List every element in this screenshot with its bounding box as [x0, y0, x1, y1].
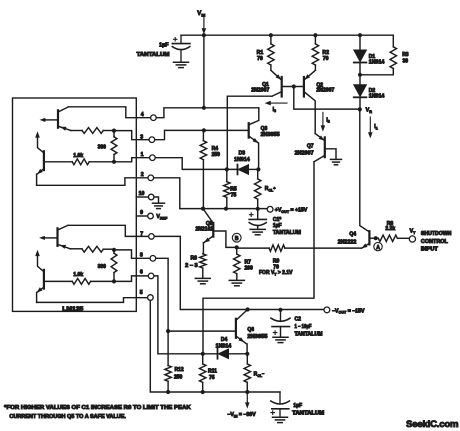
wire Q2 collector to Q7 emitter [315, 134, 324, 141]
svg-text:7: 7 [140, 231, 143, 237]
wire Q6 base [168, 330, 236, 332]
svg-text:−VOUT = −15V: −VOUT = −15V [332, 308, 365, 314]
ground input capacitor [174, 62, 189, 67]
svg-text:8: 8 [140, 252, 143, 258]
ground pin 10 [153, 203, 165, 208]
capacitor C2 plus sign [273, 331, 277, 335]
resistor R3 [360, 35, 397, 75]
label 300 upper [98, 144, 107, 150]
label Q6 [247, 327, 267, 340]
label I2 [326, 117, 329, 123]
wire VR to Q4 collector [360, 109, 370, 231]
node V_IN lower junction [202, 106, 206, 110]
svg-text:C1*: C1* [273, 217, 281, 223]
node D1 top [358, 33, 362, 37]
svg-text:250: 250 [212, 152, 221, 158]
internal transistor T4 [35, 250, 44, 303]
svg-text:R3: R3 [402, 52, 409, 58]
wire pin 10 to ground [154, 197, 159, 203]
wire Q1-Q2 base link [282, 86, 304, 88]
svg-text:9: 9 [140, 210, 143, 216]
transistor Q5 2N2102 [203, 209, 237, 254]
svg-text:1.0k: 1.0k [73, 153, 83, 159]
svg-text:2N2907: 2N2907 [295, 151, 314, 157]
label C2 [295, 317, 323, 338]
resistor R2 [312, 35, 318, 70]
transistor Q6 2N3055 [236, 310, 248, 354]
svg-text:75: 75 [231, 192, 237, 198]
wire pin 8 down [156, 258, 168, 365]
svg-text:VIN: VIN [197, 11, 205, 17]
internal transistor T1 [40, 107, 71, 131]
svg-text:2: 2 [141, 172, 144, 178]
wire Q1 collector to left node [227, 96, 272, 169]
wire pin 6 to D4 node [154, 276, 218, 354]
pin 4 terminal [141, 112, 156, 120]
svg-text:5: 5 [140, 290, 143, 296]
svg-text:1N914: 1N914 [234, 157, 250, 163]
label -VIN [227, 412, 256, 418]
internal resistor 1.0k upper [44, 159, 114, 165]
resistor R12 [165, 366, 171, 393]
wire pin 1 staircase [155, 158, 237, 170]
pin 3 terminal [140, 135, 155, 143]
node VR [358, 107, 362, 111]
wire pin 2 to +VOUT rail [154, 178, 268, 209]
svg-text:R7: R7 [245, 259, 252, 265]
svg-text:CURRENT THROUGH Q5 TO A SAFE V: CURRENT THROUGH Q5 TO A SAFE VALUE. [9, 414, 126, 420]
svg-text:300: 300 [98, 264, 107, 270]
svg-text:6: 6 [140, 270, 143, 276]
svg-text:1 – 10µF: 1 – 10µF [295, 324, 312, 330]
wire 300 bottom to pin 1 [114, 158, 150, 162]
internal resistor upper horizontal [71, 128, 114, 134]
svg-text:1µF: 1µF [159, 42, 169, 48]
svg-text:3: 3 [140, 135, 143, 141]
label R2 [322, 50, 329, 62]
node D3 right junction [256, 167, 260, 171]
terminal +VOUT [267, 206, 273, 212]
wire 300 top to pin 3 [114, 131, 149, 140]
svg-text:Q4: Q4 [349, 231, 356, 237]
node base link junction [292, 84, 296, 88]
label D2 [369, 88, 385, 100]
pin 1 terminal [141, 152, 156, 160]
resistor RCL- [244, 354, 250, 392]
svg-text:200: 200 [245, 266, 254, 272]
svg-text:TANTALUM: TANTALUM [295, 331, 323, 337]
label RCL- [254, 371, 265, 378]
svg-text:RCL+: RCL+ [265, 186, 276, 193]
label I1 [374, 124, 377, 130]
label Q7 [295, 143, 314, 156]
ground Q7 base [331, 159, 342, 164]
internal resistor lower horizontal [70, 246, 114, 252]
internal transistor T2 [35, 131, 44, 185]
node R12 bottom [166, 390, 170, 394]
label R11 [208, 368, 217, 381]
node D1-D2 junction [358, 73, 362, 77]
label V_IN [197, 11, 205, 17]
svg-text:INPUT: INPUT [421, 246, 438, 252]
svg-text:VR: VR [366, 108, 373, 114]
node R5 bottom [224, 207, 228, 211]
node 300 bottom upper [112, 160, 116, 164]
node RCL- bottom [245, 390, 249, 394]
node D4 left junction [201, 352, 205, 356]
wire pin 10 stub [136, 196, 148, 198]
resistor R1 [268, 35, 274, 70]
-VIN arrow [245, 392, 250, 409]
svg-text:CONTROL: CONTROL [421, 239, 448, 245]
current arrow I2 [321, 112, 326, 131]
footnote line 1 [4, 405, 191, 411]
label R6 [185, 255, 198, 269]
label Q1 [251, 82, 269, 94]
node R11 bottom [201, 390, 205, 394]
capacitor C1 [249, 209, 266, 230]
node D3 left junction [225, 167, 229, 171]
label R9 [259, 258, 293, 276]
svg-text:VT: VT [410, 229, 416, 235]
label VR [366, 108, 373, 114]
svg-text:SeekIC.com: SeekIC.com [406, 419, 458, 430]
label Q2 [316, 82, 334, 93]
transistor Q1 2N2907 [271, 70, 282, 96]
wire V_IN vertical to lower rail [203, 35, 205, 108]
svg-text:I1: I1 [374, 124, 377, 130]
svg-text:LM125: LM125 [62, 306, 83, 312]
svg-text:B: B [235, 236, 239, 242]
node V_IN junction [202, 33, 206, 37]
resistor R4 [200, 130, 206, 208]
label I3 [273, 107, 276, 113]
label RCL+ [265, 186, 276, 193]
svg-text:SHUTDOWN: SHUTDOWN [421, 231, 452, 237]
svg-text:2N2907: 2N2907 [251, 88, 269, 94]
svg-text:R5: R5 [230, 186, 237, 192]
node 300 bottom lower [112, 279, 116, 283]
wire pin 7 to -VOUT rail [154, 236, 324, 309]
svg-text:70: 70 [323, 56, 329, 62]
svg-text:FOR VT > 2.1V: FOR VT > 2.1V [259, 270, 293, 276]
transistor Q4 2N2222 [362, 231, 379, 248]
wire T2 emitter to pin 2 [37, 178, 148, 186]
svg-text:250: 250 [174, 375, 183, 381]
wire pin 4 to VIN rail and Q3 collector [151, 108, 259, 118]
wire V_IN top rail [181, 34, 393, 36]
node 300 top lower [112, 248, 116, 252]
wire base junction to VR line [294, 87, 360, 110]
resistor RCL+ [255, 169, 261, 208]
svg-text:D3: D3 [239, 150, 246, 156]
label D3 [234, 150, 250, 163]
node pin8 Q6 base junction [166, 329, 170, 333]
label C1 [273, 217, 301, 236]
label R12 [174, 367, 184, 381]
capacitor 1uF tantalum bottom [271, 392, 290, 417]
svg-text:VREF: VREF [156, 214, 168, 220]
label LM125 [62, 306, 83, 312]
svg-text:I2: I2 [326, 117, 329, 123]
internal resistor 300 lower [111, 250, 117, 282]
svg-text:75: 75 [209, 375, 215, 381]
label TANTALUM input cap [137, 52, 171, 58]
label D1 [369, 54, 385, 66]
node R4 top [202, 128, 206, 132]
capacitor bottom plus sign [271, 411, 275, 415]
resistor R5 [224, 169, 230, 208]
svg-text:TANTALUM: TANTALUM [273, 230, 301, 236]
svg-text:2N3055: 2N3055 [247, 334, 267, 340]
label Q3 [261, 126, 280, 138]
pin 10 terminal [139, 191, 154, 200]
node A junction [374, 236, 378, 240]
pin 2 terminal [141, 172, 154, 181]
wire pin 5 to bottom rail [150, 300, 280, 392]
svg-text:1N914: 1N914 [216, 343, 232, 349]
svg-text:R6: R6 [191, 255, 198, 261]
svg-text:D4: D4 [221, 337, 228, 343]
current arrow I3 [265, 101, 287, 106]
pin 6 terminal [140, 270, 154, 279]
label D4 [216, 337, 232, 350]
svg-text:2N2222: 2N2222 [338, 239, 357, 245]
svg-text:A: A [376, 245, 380, 251]
label 1uF input cap [159, 42, 169, 48]
label 1.0k upper [73, 153, 83, 159]
label 1.0k lower [73, 272, 83, 278]
svg-text:RCL−: RCL− [254, 371, 265, 378]
transistor Q2 2N2907 [304, 70, 316, 133]
svg-text:1: 1 [141, 152, 144, 158]
terminal -VOUT [324, 307, 330, 313]
label +VOUT [275, 208, 308, 214]
svg-text:1.0k: 1.0k [73, 272, 83, 278]
label 300 lower [98, 264, 107, 270]
wire T4 emitter to pin 5 [37, 298, 148, 303]
svg-text:−VIN = −30V: −VIN = −30V [227, 412, 256, 418]
label R7 [245, 259, 254, 271]
capacitor C2 [271, 310, 290, 337]
node C2 top [278, 308, 282, 312]
capacitor C1 plus sign [249, 213, 253, 217]
wire pin 9 stub [136, 215, 147, 217]
node 300 top upper [112, 129, 116, 133]
pin 7 terminal [140, 231, 154, 239]
svg-text:R12: R12 [175, 367, 184, 373]
svg-text:Q6: Q6 [247, 327, 254, 333]
svg-text:1N914: 1N914 [369, 94, 385, 100]
diode D1 1N914 [354, 35, 367, 75]
node R4 bottom [201, 207, 205, 211]
node D4 right junction [245, 352, 249, 356]
label R8 [385, 221, 395, 232]
svg-text:I3: I3 [273, 107, 276, 113]
diode D3 1N914 [238, 165, 259, 175]
resistor R7 [234, 247, 240, 280]
wire T3 collector to pin 7 [68, 225, 149, 236]
wire pin 3 to Q3 base [149, 130, 249, 139]
svg-text:Q7: Q7 [307, 143, 314, 149]
wire Q7 collector long run [203, 162, 314, 354]
label VT [410, 229, 416, 235]
label R5 [230, 186, 237, 198]
resistor R9 [237, 245, 362, 251]
internal resistor 1.0k lower [44, 279, 114, 285]
node B junction [235, 245, 239, 249]
ground R6 [195, 278, 210, 283]
svg-text:*FOR HIGHER VALUES OF C1 INCRE: *FOR HIGHER VALUES OF C1 INCREASE R6 TO … [4, 405, 191, 411]
internal transistor T3 [39, 225, 70, 249]
label Q5 [196, 221, 214, 233]
node A circle label [374, 242, 382, 250]
svg-text:2N3055: 2N3055 [261, 132, 280, 138]
label -VOUT [332, 308, 365, 314]
svg-text:1µF: 1µF [293, 403, 302, 409]
node R1 top [269, 33, 273, 37]
svg-text:1N914: 1N914 [369, 60, 385, 66]
terminal VT shutdown [409, 236, 415, 242]
ground R7 [229, 280, 244, 285]
svg-text:R11: R11 [208, 368, 217, 374]
transistor Q3 2N3055 [249, 108, 259, 170]
svg-text:2N2907: 2N2907 [316, 88, 334, 94]
pin 9 terminal [140, 210, 153, 219]
diode D2 1N914 [354, 75, 367, 110]
svg-text:2.2k: 2.2k [385, 226, 395, 232]
V_IN input arrow [202, 17, 207, 35]
ground C2 [273, 337, 288, 342]
wire 300 bottom to pin 6 [114, 276, 148, 282]
transistor Q7 2N2907 [314, 136, 336, 162]
capacitor 1uF tantalum input, plus sign [174, 38, 178, 42]
ground C1 [250, 229, 265, 234]
node R2 top [313, 33, 317, 37]
resistor R11 [200, 354, 206, 392]
node Q6 collector on rail [246, 307, 250, 311]
wire 300 top to pin 8 [114, 250, 150, 258]
wire T1 collector to pin 4 [69, 107, 151, 118]
label R1 [257, 50, 264, 62]
label Q4 [338, 231, 357, 245]
svg-text:+VOUT = +15V: +VOUT = +15V [275, 208, 308, 214]
label bottom cap [292, 403, 324, 417]
svg-text:4: 4 [141, 112, 144, 118]
label VREF [156, 214, 168, 220]
label R3 [402, 52, 409, 65]
label R4 [212, 146, 221, 158]
svg-text:C2: C2 [295, 317, 302, 323]
svg-text:1µF: 1µF [273, 223, 282, 229]
internal resistor 300 upper [111, 131, 117, 162]
diode D4 1N914 [218, 349, 248, 359]
pin 5 terminal [140, 290, 153, 301]
svg-text:2N2102: 2N2102 [196, 227, 214, 233]
svg-text:TANTALUM: TANTALUM [292, 411, 324, 417]
capacitor C-in plates [172, 35, 190, 62]
LM125 box [13, 98, 137, 311]
svg-text:39: 39 [403, 59, 409, 65]
svg-text:70: 70 [257, 56, 263, 62]
resistor R8 [378, 235, 409, 241]
svg-text:2 – 3: 2 – 3 [185, 263, 198, 269]
label SHUTDOWN CONTROL INPUT [421, 231, 452, 252]
watermark SeekIC.com [406, 419, 458, 430]
svg-text:300: 300 [98, 144, 107, 150]
footnote line 2 [9, 414, 126, 420]
current arrow I1 [368, 117, 373, 138]
node C1 top [256, 207, 260, 211]
resistor R6 [200, 254, 206, 278]
svg-text:TANTALUM: TANTALUM [137, 52, 171, 58]
pin 8 terminal [140, 252, 156, 261]
ground bottom cap [273, 417, 288, 422]
node B circle label [232, 233, 241, 242]
